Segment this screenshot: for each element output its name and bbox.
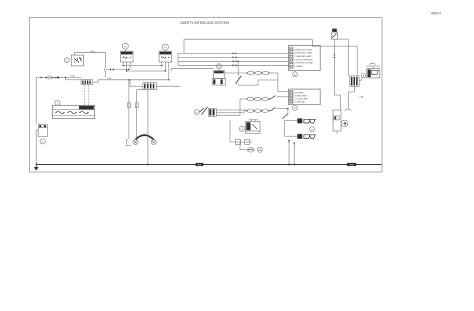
wire cluster feed 2 xyxy=(178,56,289,58)
wire ESD right y73 xyxy=(224,72,247,74)
node LH cluster circle 20 xyxy=(293,72,298,77)
ground symbol left xyxy=(35,163,37,168)
relay A drop wires xyxy=(122,62,124,66)
wire fuel connector drop xyxy=(356,46,358,76)
wire feed into connector xyxy=(76,79,81,81)
wire enclosure top run xyxy=(184,38,312,40)
wire y69.5 to relay A xyxy=(106,69,129,71)
wire ignition top feed xyxy=(73,53,75,55)
relay 15 relay B xyxy=(162,44,168,50)
wire into mid connector xyxy=(130,85,143,87)
relay 16 loader valve solenoid relay xyxy=(122,43,128,49)
seat bar switch 19 xyxy=(126,140,131,146)
wire left vertical from fuse row to battery xyxy=(35,78,37,125)
wire out of mid connector xyxy=(156,85,180,87)
svg-text:· · · · · ·: · · · · · · xyxy=(60,117,68,119)
wire breaker right run xyxy=(337,38,348,40)
wire cluster feed 3 xyxy=(178,60,289,62)
loader valve solenoid upper 17 xyxy=(297,118,302,123)
svg-text:B SEAT BELT LAMP: B SEAT BELT LAMP xyxy=(295,52,313,55)
RH instrument cluster 21 xyxy=(289,89,321,105)
switch after row1 xyxy=(269,98,271,100)
brake relay 31 xyxy=(239,126,244,131)
wire w/ connectors y142 xyxy=(230,141,252,143)
svg-text:C SEAT BAR LAMP: C SEAT BAR LAMP xyxy=(295,55,312,58)
wire cluster feed 4 xyxy=(178,64,289,66)
svg-text:B SEAT LAMP: B SEAT LAMP xyxy=(295,94,308,97)
svg-text:A POWER: A POWER xyxy=(295,91,304,94)
schematic border frame xyxy=(30,18,383,173)
diode circle w/ arrow xyxy=(341,120,348,127)
node diode circle 44A xyxy=(257,147,262,152)
svg-text:C DOOR LAMP: C DOOR LAMP xyxy=(295,97,309,100)
connector cab harness C1 xyxy=(81,80,93,85)
fuel connector xyxy=(350,76,359,87)
node solenoid circle 17 xyxy=(310,127,315,132)
cab door switch 44 xyxy=(237,61,239,76)
wire diode assembly down xyxy=(336,131,338,134)
diode row 2 xyxy=(247,109,253,113)
svg-text:D GROUND: D GROUND xyxy=(295,101,306,103)
wire cluster feed risers xyxy=(177,53,179,65)
diode 44A xyxy=(247,148,254,153)
switch after row2 xyxy=(269,110,271,112)
wire main feed y77.5 xyxy=(36,77,81,79)
fuel hold-in solenoid 8 xyxy=(361,73,366,78)
svg-text:E SYSTEM GROUND: E SYSTEM GROUND xyxy=(295,63,314,65)
wire row0 out xyxy=(269,72,278,74)
diode row 0 xyxy=(248,71,254,75)
node RH cluster circle 21 xyxy=(292,105,297,110)
node battery circle 1 xyxy=(40,139,45,144)
svg-text:4000-4: 4000-4 xyxy=(431,12,441,16)
wire cluster feed 1 xyxy=(178,52,289,54)
wire battery to ground bus xyxy=(35,130,37,163)
wire relays link y71 xyxy=(127,70,166,72)
svg-text:GND: GND xyxy=(349,165,354,167)
connector arrow symbol xyxy=(57,76,60,78)
junction dots lower bus xyxy=(168,79,169,80)
wire ignition feed drop xyxy=(105,53,107,67)
ground bus wire xyxy=(36,164,381,166)
bus label right xyxy=(347,163,356,166)
wire breaker down xyxy=(333,39,335,95)
loader valve solenoid lower 17 xyxy=(297,134,302,139)
wire connector to relays y79.8 xyxy=(93,81,98,83)
primary fuse block 7 xyxy=(55,100,60,105)
circuit breaker xyxy=(332,29,337,32)
junction dots on feed wire xyxy=(40,77,41,78)
svg-text:100A: 100A xyxy=(70,75,75,78)
LH instrument cluster 20 xyxy=(289,45,321,70)
svg-text:F SPARE: F SPARE xyxy=(295,65,304,68)
engine shut down relay 15 xyxy=(216,64,221,69)
connector splice box mid xyxy=(143,83,157,90)
wires solenoid grounds xyxy=(288,140,290,165)
seat switch 19 xyxy=(194,109,199,114)
wire relays link y65.6 xyxy=(123,65,162,67)
bus label W01 xyxy=(196,163,204,166)
svg-text:A IGNITION POWER: A IGNITION POWER xyxy=(295,48,313,51)
wire cab door to RH cluster xyxy=(238,84,258,86)
diode row 1 xyxy=(247,97,253,101)
ignition switch 5 xyxy=(71,55,83,66)
wire to ESD relay y68.3 xyxy=(172,67,214,69)
node ignition circle 5 xyxy=(64,58,69,63)
wire connector down to fuse block (dashed pair) xyxy=(83,85,85,106)
wire brake relay bottom xyxy=(246,133,261,135)
seat switch wires right xyxy=(216,109,247,111)
wire seat bar drop left xyxy=(128,80,130,139)
wire solenoid feed xyxy=(359,80,361,82)
battery 1 xyxy=(38,125,47,137)
relay B drop wires xyxy=(161,62,163,66)
svg-text:D SHUTDOWN PWR: D SHUTDOWN PWR xyxy=(295,59,314,61)
svg-text:100B: 100B xyxy=(90,51,95,53)
switch feed solenoids xyxy=(287,109,289,114)
wire fuel connector down xyxy=(354,86,356,92)
svg-text:○ 44A: ○ 44A xyxy=(358,96,364,99)
wires loader solenoids xyxy=(284,120,297,122)
svg-text:SAFETY INTERLOCK SYSTEM: SAFETY INTERLOCK SYSTEM xyxy=(180,21,229,25)
fuse F1 xyxy=(46,76,52,79)
diode assembly right xyxy=(340,95,342,110)
wire seat bar to ground xyxy=(147,90,149,165)
wire seat bar drop right xyxy=(136,90,138,139)
